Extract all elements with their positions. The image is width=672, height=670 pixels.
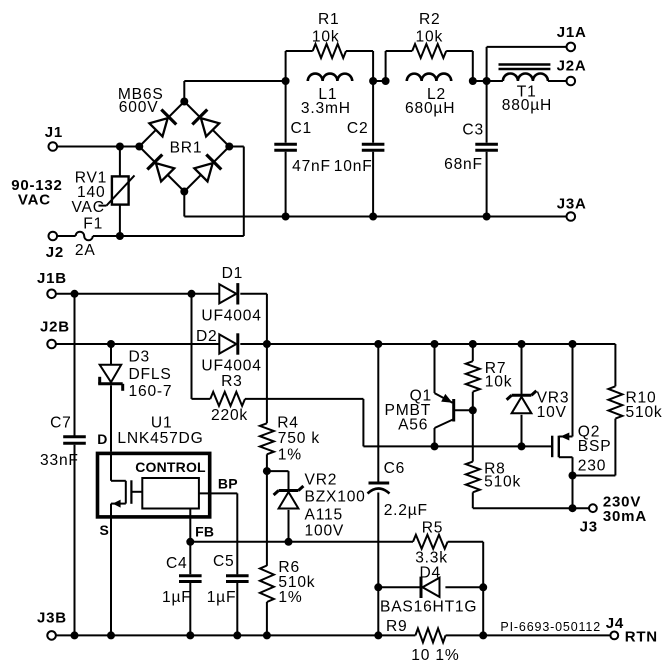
node VR2 anode junction — [285, 538, 293, 546]
svg-text:BR1: BR1 — [170, 140, 203, 157]
svg-text:RTN: RTN — [625, 628, 658, 645]
svg-text:J2A: J2A — [557, 57, 587, 74]
terminal J1 — [45, 124, 63, 151]
svg-text:750 k: 750 k — [278, 430, 320, 447]
node C3 bottom — [483, 213, 491, 221]
bridge rectifier BR1 — [135, 98, 233, 196]
label C7 value 33nF — [40, 452, 79, 469]
label C1 value 47nF — [292, 158, 331, 175]
label R4 — [277, 415, 299, 432]
capacitor C6 — [368, 344, 390, 635]
svg-text:PI-6693-050112: PI-6693-050112 — [500, 620, 601, 634]
label R8 — [484, 460, 506, 477]
label R9 — [386, 618, 408, 635]
terminal J4 RTN — [606, 615, 658, 645]
svg-text:C4: C4 — [166, 555, 188, 572]
svg-text:J2: J2 — [46, 244, 64, 261]
node R7 top junction — [469, 340, 477, 348]
wire dc minus rail — [286, 216, 567, 218]
svg-text:R2: R2 — [419, 11, 441, 28]
diode D4 — [378, 577, 483, 598]
terminal J3 — [573, 504, 598, 535]
node R9 right junction — [479, 631, 487, 639]
svg-text:BP: BP — [218, 475, 238, 491]
label R5 value 3.3k — [415, 550, 448, 567]
svg-text:FB: FB — [195, 523, 214, 539]
label Q1 value PMBT A56 — [385, 402, 432, 433]
label C7 — [50, 415, 72, 432]
label Q2 value BSP 230 — [578, 438, 612, 475]
svg-text:BAS16HT1G: BAS16HT1G — [380, 599, 477, 616]
U1 controller block — [142, 478, 199, 509]
label U1 — [151, 415, 173, 432]
label C4 — [166, 555, 188, 572]
wire D1 cathode to R4 — [266, 344, 268, 423]
node R6 bottom — [263, 631, 271, 639]
svg-text:1µF: 1µF — [207, 589, 237, 606]
label F1 — [83, 216, 103, 233]
label R8 value 510k — [484, 474, 521, 491]
svg-text:J3A: J3A — [557, 196, 587, 213]
terminal J2 — [46, 232, 64, 261]
transistor Q1 — [435, 344, 473, 446]
svg-text:510k: 510k — [484, 474, 521, 491]
pin D label — [97, 431, 107, 447]
svg-text:C7: C7 — [50, 415, 72, 432]
label C2 value 10nF — [334, 158, 373, 175]
svg-text:C2: C2 — [347, 120, 369, 137]
svg-text:2.2µF: 2.2µF — [384, 502, 428, 519]
node C6 top junction — [374, 340, 382, 348]
label C6 value 2.2uF — [384, 502, 428, 519]
label C5 value 1uF — [207, 589, 237, 606]
svg-text:10k: 10k — [416, 29, 444, 46]
wire R2 to T1 junction — [473, 80, 487, 82]
label R10 — [626, 389, 657, 406]
capacitor C7 — [63, 294, 86, 636]
label F1 value 2A — [75, 242, 96, 259]
label 230V 30mA — [603, 493, 647, 524]
svg-text:33nF: 33nF — [40, 452, 79, 469]
svg-text:J3: J3 — [580, 519, 598, 536]
label BR1 — [170, 140, 203, 157]
node R2 right junction — [469, 77, 477, 85]
svg-text:BZX100: BZX100 — [305, 489, 366, 506]
resistor R9 — [415, 628, 483, 642]
svg-text:VAC: VAC — [18, 191, 51, 208]
capacitor C3 — [475, 81, 498, 217]
node Q1 collector junction — [431, 442, 439, 450]
svg-text:R3: R3 — [221, 373, 243, 390]
node R4/VR2/R6 junction — [263, 467, 271, 475]
svg-text:J3B: J3B — [37, 610, 67, 627]
wire J1 to bridge — [57, 146, 139, 148]
label VR2 value BZX100 A115 100V — [305, 489, 366, 540]
label RV1 value 140 VAC — [72, 184, 106, 216]
label R3 value 220k — [211, 407, 248, 424]
label T1 — [517, 84, 537, 101]
svg-text:S: S — [100, 522, 109, 538]
label VR3 — [537, 389, 570, 406]
label VR2 — [305, 472, 338, 489]
svg-text:1µF: 1µF — [162, 589, 192, 606]
svg-text:R9: R9 — [386, 618, 408, 635]
node S pin bottom — [107, 631, 115, 639]
label PI-6693-050112 — [500, 620, 601, 634]
node J1B/D1/R3 junction — [188, 290, 196, 298]
capacitor C5 — [226, 576, 249, 636]
svg-text:A115: A115 — [305, 506, 343, 523]
node D4 anode junction — [479, 583, 487, 591]
svg-text:C1: C1 — [291, 120, 313, 137]
svg-text:3.3mH: 3.3mH — [301, 100, 351, 117]
svg-text:J4: J4 — [606, 615, 624, 632]
wire J1B to R3 — [191, 294, 193, 399]
node VR3 anode junction — [518, 442, 526, 450]
svg-text:F1: F1 — [83, 216, 103, 233]
svg-text:100V: 100V — [305, 522, 345, 539]
inductor L2 — [407, 74, 451, 81]
svg-text:220k: 220k — [211, 407, 248, 424]
label C4 value 1uF — [162, 589, 192, 606]
wire J2B row — [56, 343, 219, 345]
svg-text:10k: 10k — [312, 29, 340, 46]
label L1 — [318, 86, 337, 103]
node D3 top junction — [107, 340, 115, 348]
svg-text:DFLS: DFLS — [129, 366, 172, 383]
label 90-132 VAC — [11, 177, 63, 209]
wire to J1A — [487, 47, 567, 81]
diode D1 — [192, 283, 267, 344]
fuse F1 — [57, 232, 120, 241]
svg-text:D1: D1 — [222, 265, 244, 282]
op-amp U1 box — [98, 453, 210, 517]
pin S label — [100, 522, 109, 538]
node J3 junction — [569, 504, 577, 512]
svg-text:C3: C3 — [462, 121, 484, 138]
label R7 — [485, 360, 507, 377]
label C5 — [213, 553, 235, 570]
node C1/R1 junction — [282, 77, 290, 85]
pin BP label — [218, 475, 238, 491]
schottky diode D3 — [98, 344, 123, 452]
resistor R6 — [260, 566, 274, 636]
node VR3 top junction — [518, 340, 526, 348]
svg-text:1%: 1% — [278, 589, 302, 606]
wire bottom rail left — [56, 634, 415, 636]
zener VR2 — [274, 486, 304, 542]
svg-text:R1: R1 — [318, 11, 340, 28]
wire D2 output rail — [267, 343, 616, 345]
label R2 value 10k — [416, 29, 444, 46]
capacitor C4 — [179, 542, 202, 636]
wire R4 junction to R6 — [266, 471, 268, 566]
svg-text:D: D — [97, 431, 107, 447]
label R5 — [422, 519, 444, 536]
wire Q2 source to J3 — [572, 476, 574, 509]
label L2 — [427, 86, 446, 103]
svg-text:R5: R5 — [422, 519, 444, 536]
svg-text:UF4004: UF4004 — [201, 357, 261, 374]
svg-text:A56: A56 — [398, 416, 428, 433]
wire R3 to gate line — [363, 399, 552, 447]
node C5 bottom — [233, 631, 241, 639]
resistor R7 — [466, 344, 480, 410]
label RV1 — [75, 169, 107, 186]
label T1 value 880uH — [502, 97, 552, 114]
svg-text:R4: R4 — [277, 415, 299, 432]
node C1 bottom — [282, 213, 290, 221]
svg-text:600V: 600V — [119, 99, 159, 116]
svg-text:880µH: 880µH — [502, 97, 552, 114]
label C3 value 68nF — [444, 156, 483, 173]
node Q1 emitter junction — [431, 340, 439, 348]
node RV1 top junction — [116, 143, 124, 151]
node C4 bottom — [186, 631, 194, 639]
node C6 bottom — [374, 631, 382, 639]
svg-text:D4: D4 — [420, 565, 442, 582]
wire S pin to bottom rail — [110, 504, 112, 636]
node fuse/RV1 junction — [116, 232, 124, 240]
wire bridge minus to bottom rail — [184, 192, 285, 217]
svg-text:10 1%: 10 1% — [411, 647, 459, 664]
label D3 value DFLS 160-7 — [129, 366, 173, 400]
svg-text:J2B: J2B — [40, 318, 70, 335]
inductor T1 — [487, 65, 567, 82]
svg-text:68nF: 68nF — [444, 156, 483, 173]
resistor R5 — [413, 535, 483, 588]
varistor RV1 — [99, 147, 135, 237]
node FB junction — [186, 538, 194, 546]
label BR1 value MB6S 600V — [118, 86, 164, 116]
node Q2 drain junction — [569, 340, 577, 348]
svg-text:VR2: VR2 — [305, 472, 338, 489]
wire C2 to R2 — [373, 80, 386, 82]
wire bridge plus to top rail — [184, 81, 285, 102]
svg-text:C6: C6 — [384, 460, 406, 477]
label R3 — [221, 373, 243, 390]
wire J1B row — [56, 293, 192, 295]
label VR3 value 10V — [537, 404, 567, 421]
label D1 — [222, 265, 244, 282]
svg-text:160-7: 160-7 — [129, 383, 173, 400]
pin FB label — [195, 523, 214, 539]
label R10 value 510k — [626, 404, 663, 421]
node Q2 source junction — [569, 472, 577, 480]
svg-text:47nF: 47nF — [292, 158, 331, 175]
label L1 value 3.3mH — [301, 100, 351, 117]
label Q2 — [578, 424, 600, 441]
resistor R1 — [286, 44, 374, 81]
svg-text:UF4004: UF4004 — [201, 308, 261, 325]
svg-text:LNK457DG: LNK457DG — [117, 430, 203, 447]
wire FB pin — [189, 509, 191, 542]
label R9 value 10 1% — [411, 647, 459, 664]
svg-text:C5: C5 — [213, 553, 235, 570]
svg-text:510k: 510k — [626, 404, 663, 421]
label R1 — [318, 11, 340, 28]
terminal J3B — [37, 610, 67, 640]
transistor U1 internal MOSFET — [111, 453, 142, 507]
resistor R3 — [192, 392, 364, 406]
svg-text:680µH: 680µH — [405, 100, 455, 117]
wire BP pin — [199, 493, 237, 574]
label R6 — [278, 559, 300, 576]
label R1 value 10k — [312, 29, 340, 46]
svg-text:D3: D3 — [129, 348, 151, 365]
label R4 value 750 k 1% — [278, 430, 320, 464]
resistor R10 — [573, 344, 623, 476]
wire to J4 — [483, 634, 610, 636]
label U1 CONTROL — [135, 459, 206, 475]
svg-text:10V: 10V — [537, 404, 567, 421]
node C3/J1A junction — [483, 77, 491, 85]
svg-text:10k: 10k — [485, 373, 513, 390]
resistor R2 — [386, 44, 473, 81]
node D4 cathode junction — [374, 583, 382, 591]
svg-text:VAC: VAC — [72, 199, 105, 216]
svg-text:BSP: BSP — [578, 438, 612, 455]
resistor R8 — [466, 410, 573, 508]
label L2 value 680uH — [405, 100, 455, 117]
node D1/D2 cathode junction — [263, 340, 271, 348]
label R2 — [419, 11, 441, 28]
label Q1 — [410, 388, 432, 405]
label R6 value 510k 1% — [278, 574, 315, 606]
resistor R4 — [260, 423, 274, 471]
transistor Q2 — [552, 344, 572, 476]
svg-text:10nF: 10nF — [334, 158, 373, 175]
label D3 — [129, 348, 151, 365]
svg-text:J1A: J1A — [557, 24, 587, 41]
terminal J1A — [557, 24, 587, 51]
label D2 value UF4004 — [201, 357, 261, 374]
wire R4 to VR2 — [267, 471, 289, 489]
capacitor C2 — [362, 81, 385, 217]
label C6 — [384, 460, 406, 477]
svg-text:30mA: 30mA — [603, 508, 647, 525]
terminal J2A — [557, 57, 587, 85]
diode D2 — [219, 333, 267, 354]
node C7 top junction — [71, 290, 79, 298]
label U1 value LNK457DG — [117, 430, 203, 447]
svg-text:U1: U1 — [151, 415, 173, 432]
svg-text:J1B: J1B — [37, 270, 67, 287]
terminal J3A — [557, 196, 587, 221]
svg-text:CONTROL: CONTROL — [135, 459, 206, 475]
terminal J2B — [40, 318, 70, 348]
svg-text:1%: 1% — [278, 447, 302, 464]
label C2 — [347, 120, 369, 137]
node Q1 base junction — [469, 406, 477, 414]
node C2 junction — [369, 77, 377, 85]
wire FB row — [190, 541, 413, 543]
node C7 bottom — [71, 631, 79, 639]
label C3 — [462, 121, 484, 138]
label D4 value BAS16HT1G — [380, 599, 477, 616]
label D4 — [420, 565, 442, 582]
zener VR3 — [507, 344, 537, 446]
label D2 — [196, 328, 218, 345]
wire D4 to R9 junction — [482, 587, 484, 635]
label R7 value 10k — [485, 373, 513, 390]
wire F1 to bridge AC2 — [120, 147, 244, 237]
svg-text:2A: 2A — [75, 242, 96, 259]
svg-text:230: 230 — [578, 458, 606, 475]
node C2 bottom — [369, 213, 377, 221]
svg-text:J1: J1 — [45, 124, 63, 141]
label C1 — [291, 120, 313, 137]
capacitor C1 — [274, 81, 297, 217]
terminal J1B — [37, 270, 67, 298]
node R2/L2 left junction — [382, 77, 390, 85]
svg-text:D2: D2 — [196, 328, 218, 345]
label D1 value UF4004 — [201, 308, 261, 325]
inductor L1 — [308, 74, 352, 81]
